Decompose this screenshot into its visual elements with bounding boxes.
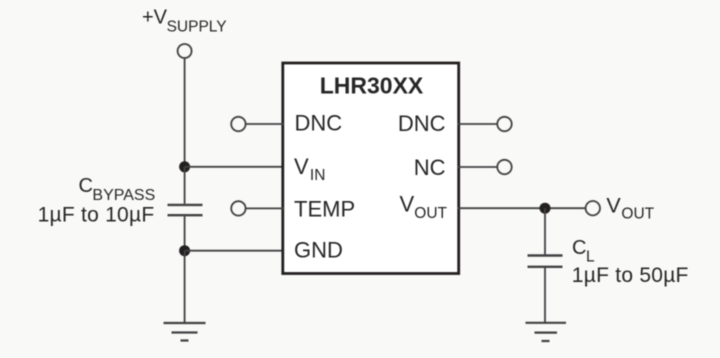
svg-text:V: V bbox=[606, 193, 621, 217]
svg-text:OUT: OUT bbox=[621, 206, 654, 223]
node VOUT label bbox=[606, 193, 654, 222]
wire CBYPASS bottom to junction B bbox=[184, 216, 186, 250]
svg-text:1µF to 50µF: 1µF to 50µF bbox=[572, 264, 689, 287]
svg-text:DNC: DNC bbox=[398, 111, 446, 136]
svg-text:DNC: DNC bbox=[295, 111, 343, 136]
wire VOUT net bbox=[458, 207, 586, 209]
svg-text:C: C bbox=[572, 237, 586, 259]
wire DNC left pin bbox=[246, 123, 284, 125]
wire NC pin bbox=[458, 166, 498, 168]
svg-text:C: C bbox=[79, 175, 93, 197]
terminal +VSUPPLY bbox=[178, 44, 192, 58]
svg-text:IN: IN bbox=[310, 167, 326, 184]
capacitor CL bbox=[528, 256, 563, 267]
svg-text:V: V bbox=[294, 154, 309, 179]
junction node B (GND pin/CBYPASS/ground) bbox=[179, 245, 190, 256]
junction node VOUT bbox=[540, 203, 551, 214]
svg-text:OUT: OUT bbox=[414, 205, 447, 222]
svg-text:V: V bbox=[400, 191, 415, 216]
svg-text:TEMP: TEMP bbox=[294, 197, 355, 222]
svg-text:NC: NC bbox=[414, 155, 446, 180]
wire TEMP pin bbox=[246, 207, 284, 209]
terminal DNC left bbox=[231, 117, 245, 131]
svg-text:GND: GND bbox=[294, 238, 343, 263]
svg-text:LHR30XX: LHR30XX bbox=[320, 72, 424, 98]
label CBYPASS bbox=[79, 175, 156, 204]
pin label VIN bbox=[294, 154, 325, 184]
svg-text:1µF to 10µF: 1µF to 10µF bbox=[38, 204, 155, 227]
svg-text:SUPPLY: SUPPLY bbox=[167, 18, 227, 35]
node +VSUPPLY label bbox=[142, 7, 227, 36]
wire junction B down to ground bbox=[184, 251, 186, 323]
wire VOUT junction to CL bbox=[544, 208, 546, 254]
ground symbol left bbox=[164, 323, 206, 341]
terminal TEMP bbox=[231, 201, 245, 215]
terminal NC bbox=[497, 160, 511, 174]
junction node A (supply/VIN/CBYPASS) bbox=[179, 161, 190, 172]
wire CL bottom to ground bbox=[544, 268, 546, 323]
svg-text:L: L bbox=[586, 248, 595, 265]
pin label VOUT inside bbox=[400, 191, 448, 222]
wire DNC right pin bbox=[458, 123, 498, 125]
wire to GND pin bbox=[185, 250, 284, 252]
op-amp U1 LHR30XX box bbox=[283, 63, 459, 274]
wire junction A to CBYPASS top bbox=[184, 167, 186, 204]
wire supply rail down bbox=[184, 58, 186, 167]
svg-text:BYPASS: BYPASS bbox=[92, 187, 155, 204]
label CL bbox=[572, 237, 595, 265]
terminal VOUT bbox=[586, 201, 600, 215]
terminal DNC right bbox=[497, 117, 511, 131]
capacitor CBYPASS bbox=[168, 205, 203, 215]
svg-text:+V: +V bbox=[142, 7, 168, 29]
wire to VIN pin bbox=[185, 166, 284, 168]
ground symbol right bbox=[526, 323, 567, 341]
